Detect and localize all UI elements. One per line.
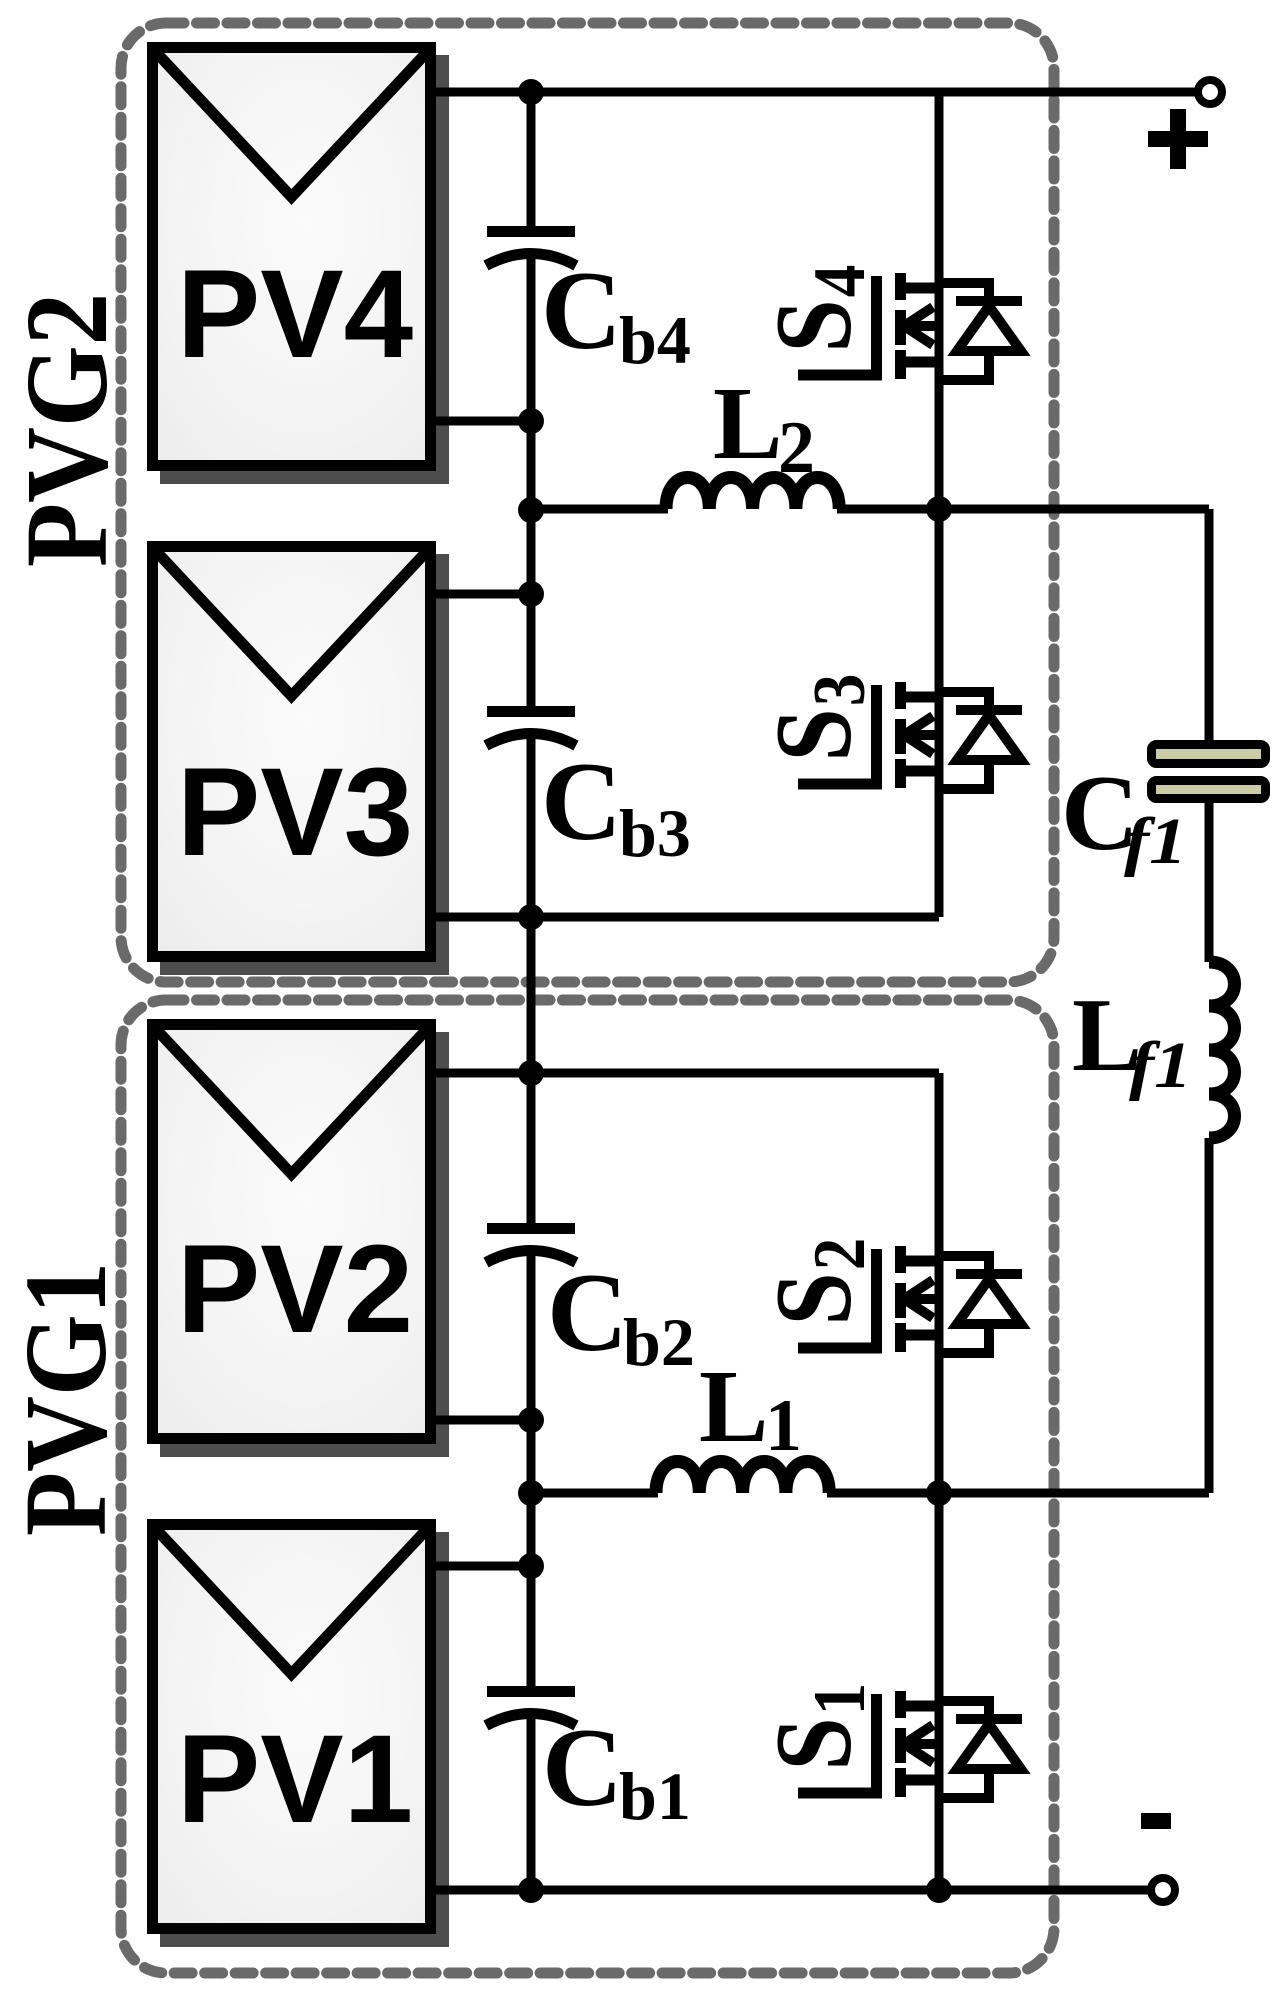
svg-text:C: C xyxy=(541,249,622,373)
svg-text:f1: f1 xyxy=(1124,805,1187,878)
svg-text:b2: b2 xyxy=(623,1304,695,1380)
svg-text:C: C xyxy=(547,1251,628,1375)
svg-text:b4: b4 xyxy=(619,302,691,378)
svg-text:C: C xyxy=(542,1706,623,1830)
svg-text:b1: b1 xyxy=(619,1758,691,1834)
svg-text:PV3: PV3 xyxy=(177,743,413,882)
svg-text:PVG2: PVG2 xyxy=(1,293,132,567)
svg-text:b3: b3 xyxy=(619,795,691,871)
svg-text:PV2: PV2 xyxy=(177,1220,413,1359)
svg-text:PVG1: PVG1 xyxy=(0,1262,131,1536)
svg-text:C: C xyxy=(541,740,622,864)
svg-text:PV4: PV4 xyxy=(177,245,413,384)
svg-text:L: L xyxy=(699,1349,768,1464)
svg-text:S: S xyxy=(754,299,874,352)
svg-text:2: 2 xyxy=(799,1238,881,1271)
svg-text:S: S xyxy=(754,1717,874,1770)
svg-text:f1: f1 xyxy=(1129,1029,1192,1102)
svg-text:1: 1 xyxy=(799,1683,881,1716)
svg-text:1: 1 xyxy=(765,1385,802,1467)
svg-text:4: 4 xyxy=(799,265,881,298)
svg-text:L: L xyxy=(713,366,782,481)
svg-text:2: 2 xyxy=(778,407,815,489)
svg-text:3: 3 xyxy=(799,674,881,707)
svg-text:PV1: PV1 xyxy=(177,1710,413,1849)
svg-text:S: S xyxy=(754,708,874,761)
svg-text:S: S xyxy=(754,1272,874,1325)
